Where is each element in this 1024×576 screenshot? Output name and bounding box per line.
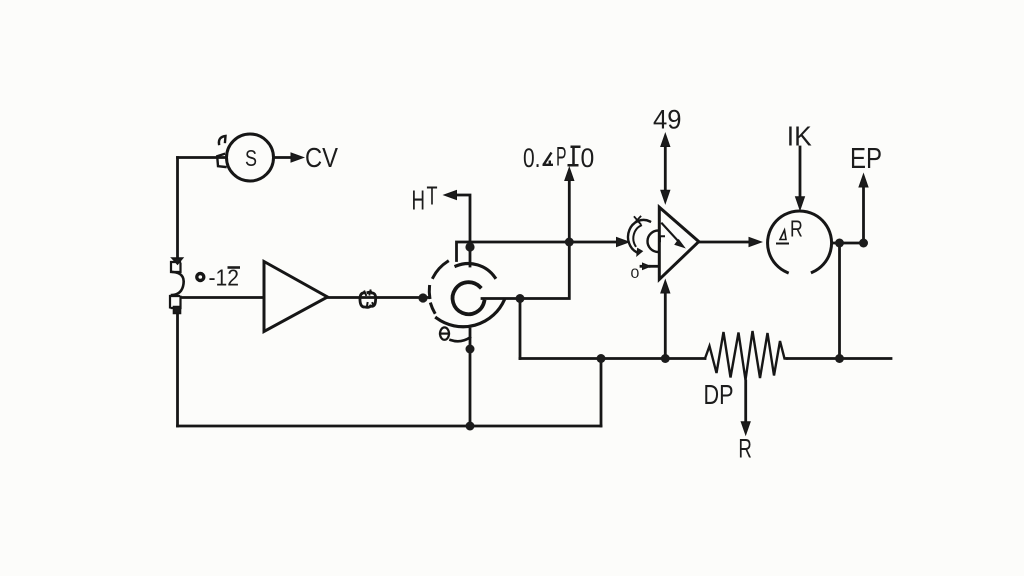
svg-text:49: 49 (653, 104, 682, 134)
svg-text:CV: CV (305, 142, 338, 173)
svg-text:T: T (427, 181, 438, 211)
svg-text:0: 0 (581, 143, 595, 173)
svg-text:P: P (556, 142, 567, 172)
svg-text:R: R (738, 434, 752, 464)
svg-text:S: S (245, 145, 257, 171)
svg-text:DP: DP (704, 379, 734, 410)
svg-text:R: R (790, 215, 803, 241)
svg-text:0.: 0. (523, 143, 541, 173)
svg-text:IK: IK (787, 120, 813, 151)
svg-text:EP: EP (850, 143, 882, 175)
svg-text:0: 0 (631, 266, 640, 281)
svg-text:H: H (412, 185, 426, 216)
